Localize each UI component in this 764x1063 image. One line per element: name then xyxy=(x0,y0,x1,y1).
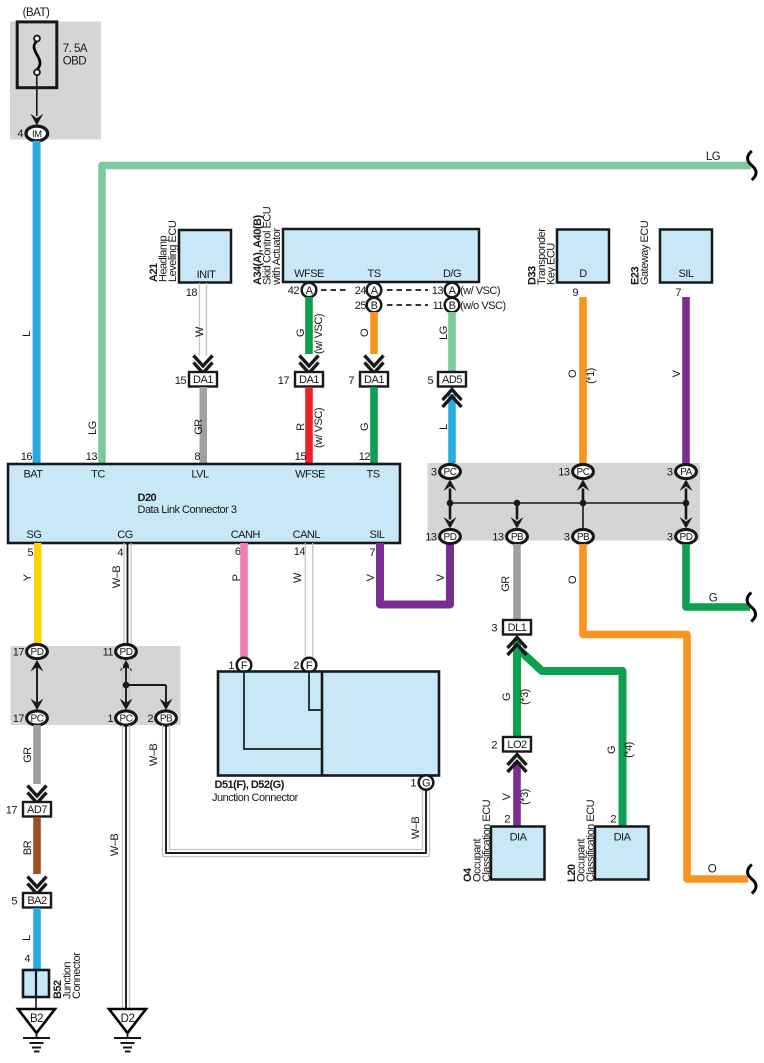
svg-text:P: P xyxy=(231,574,243,581)
connector PD top right xyxy=(116,644,137,658)
svg-text:A: A xyxy=(306,285,314,297)
svg-text:13: 13 xyxy=(86,451,98,463)
pin 3 PA xyxy=(667,467,673,479)
svg-text:Classification ECU: Classification ECU xyxy=(585,799,597,882)
label GR xyxy=(193,419,205,435)
label LG horizontal xyxy=(706,151,721,163)
wire G (green) DA1 to D20 pin 12 TS xyxy=(370,387,378,464)
label W xyxy=(292,572,304,583)
wire L (blue) AD5 to 3 PC xyxy=(448,394,456,464)
connector PB bottom right xyxy=(156,711,177,725)
connector 5 BA2 xyxy=(11,893,51,908)
dashed link TS B to D/G B xyxy=(387,304,428,306)
svg-text:IM: IM xyxy=(32,129,42,140)
svg-text:24: 24 xyxy=(355,285,367,297)
label LG xyxy=(438,326,450,340)
label W-B xyxy=(111,566,123,589)
svg-text:(BAT): (BAT) xyxy=(23,7,50,19)
pin 5 SG xyxy=(27,547,33,559)
label (BAT) xyxy=(23,7,50,19)
svg-text:5: 5 xyxy=(427,375,433,387)
svg-text:PB: PB xyxy=(160,714,173,725)
svg-text:V: V xyxy=(365,573,377,581)
svg-text:13: 13 xyxy=(432,285,444,297)
wire Y (yellow) D20 SG to 17 PD xyxy=(34,543,42,646)
svg-text:G: G xyxy=(422,778,430,790)
pin 11 PD xyxy=(103,647,114,659)
arrow into DA1 TS xyxy=(365,356,384,374)
wire G (green) 3 PD to right edge xyxy=(686,544,750,607)
wire O (orange) 3 PB to right edge xyxy=(583,544,748,879)
wire W (white) D20 CANL to D51 2F xyxy=(305,543,312,659)
pin 7 SIL xyxy=(369,547,375,559)
svg-text:3: 3 xyxy=(491,623,497,635)
label GR xyxy=(500,576,512,592)
svg-text:Data Link Connector 3: Data Link Connector 3 xyxy=(138,504,237,516)
svg-text:(*1): (*1) xyxy=(585,368,597,384)
svg-text:5: 5 xyxy=(27,547,33,559)
label D51 D52 xyxy=(212,779,299,804)
arrow down into 13 PD xyxy=(444,503,457,529)
label P xyxy=(231,574,243,581)
internal wire from 1F xyxy=(244,672,322,749)
svg-text:PD: PD xyxy=(120,647,133,658)
connector IM xyxy=(26,126,48,141)
arrow into DA1 xyxy=(194,356,213,374)
ECU D33 Transponder Key ECU xyxy=(527,228,610,285)
link 11 PD down xyxy=(123,659,130,710)
dashed link TS A to D/G A xyxy=(387,289,428,291)
svg-text:TS: TS xyxy=(367,268,380,280)
svg-text:LVL: LVL xyxy=(191,469,209,481)
svg-text:W–B: W–B xyxy=(410,817,422,840)
svg-text:(*3): (*3) xyxy=(519,689,531,705)
svg-text:17: 17 xyxy=(278,375,290,387)
connector PA top right xyxy=(676,464,697,478)
label G (*4) branch xyxy=(606,742,635,758)
svg-text:INIT: INIT xyxy=(197,269,217,281)
internal bus line xyxy=(450,502,686,504)
pin 13 PD xyxy=(425,532,437,544)
arrow into BA2 xyxy=(28,877,47,895)
svg-text:A: A xyxy=(371,285,379,297)
svg-text:B: B xyxy=(449,300,456,312)
junction dot 3 xyxy=(580,500,587,507)
internal wire from 2F xyxy=(309,672,322,710)
label L xyxy=(21,935,33,941)
continuation squiggle LG xyxy=(748,151,757,180)
svg-text:SIL: SIL xyxy=(369,529,384,541)
connector 7 DA1 xyxy=(348,372,388,387)
pin 1 G xyxy=(410,778,416,790)
label V xyxy=(671,369,683,377)
wire LG (light green) D/G B to AD5 xyxy=(448,312,456,372)
svg-text:B: B xyxy=(371,300,378,312)
wire W-B D20 CG to 11 PD xyxy=(124,543,131,645)
svg-text:V: V xyxy=(671,369,683,377)
svg-text:W: W xyxy=(194,326,206,337)
svg-text:13: 13 xyxy=(425,532,437,544)
svg-text:LG: LG xyxy=(706,151,721,163)
svg-text:2: 2 xyxy=(504,814,510,826)
svg-text:8: 8 xyxy=(194,451,200,463)
svg-text:V: V xyxy=(501,792,513,800)
label W-B xyxy=(109,834,121,857)
connector PC bottom left xyxy=(27,711,48,725)
wire O (orange) TS B to DA1 xyxy=(370,312,378,354)
pin 1 PC xyxy=(107,713,113,725)
svg-text:42: 42 xyxy=(288,285,300,297)
ECU O4 Occupant Classification ECU xyxy=(462,799,545,882)
svg-text:3: 3 xyxy=(667,532,673,544)
svg-text:GR: GR xyxy=(193,419,205,435)
svg-text:12: 12 xyxy=(359,451,371,463)
svg-text:PB: PB xyxy=(511,532,524,543)
svg-text:G: G xyxy=(359,423,371,431)
svg-text:TS: TS xyxy=(366,469,379,481)
wire G (green) WFSE to DA1 xyxy=(305,297,313,354)
pin 24 terminal A of TS xyxy=(355,283,382,298)
svg-text:4: 4 xyxy=(17,128,23,140)
svg-text:(*4): (*4) xyxy=(623,742,635,758)
svg-text:DA1: DA1 xyxy=(364,374,384,386)
pin 25 terminal B of TS xyxy=(355,298,382,313)
dashed link WFSE A to TS A xyxy=(321,289,349,291)
label O xyxy=(359,328,371,337)
arrow down into 17 PC xyxy=(31,699,44,711)
wire R (red) DA1 to D20 pin 15 WFSE xyxy=(305,387,313,464)
terminal F1 xyxy=(237,658,252,673)
svg-text:W–B: W–B xyxy=(148,744,160,767)
svg-text:D20: D20 xyxy=(138,492,157,504)
junction dot 4 xyxy=(683,500,690,507)
pin 42 terminal A of WFSE xyxy=(288,283,317,298)
label O vertical xyxy=(567,575,579,584)
svg-text:17: 17 xyxy=(13,713,25,725)
svg-text:2: 2 xyxy=(610,814,616,826)
arrow into DA1 WFSE xyxy=(300,356,319,374)
svg-text:Key ECU: Key ECU xyxy=(546,243,558,285)
wire BR (brown) AD7 to BA2 xyxy=(33,817,41,874)
connector 15 DA1 xyxy=(175,372,217,387)
svg-text:G: G xyxy=(709,593,718,605)
svg-text:Connector: Connector xyxy=(71,952,83,999)
label BR xyxy=(22,840,34,855)
svg-text:18: 18 xyxy=(186,287,198,299)
svg-text:L: L xyxy=(21,331,33,337)
pin 9 xyxy=(572,287,578,299)
svg-text:PC: PC xyxy=(31,714,44,725)
pin 6 CANH xyxy=(235,546,241,558)
arrow up into 3 PC xyxy=(444,480,457,504)
wire fuse to IM with arrow xyxy=(30,75,43,125)
svg-text:with Actuator: with Actuator xyxy=(271,228,283,286)
pin 17 PD xyxy=(13,647,25,659)
svg-text:16: 16 xyxy=(21,451,33,463)
svg-text:15: 15 xyxy=(175,375,187,387)
label Y xyxy=(22,573,34,581)
svg-text:G: G xyxy=(501,693,513,701)
svg-text:17: 17 xyxy=(13,647,25,659)
svg-text:O: O xyxy=(567,369,579,378)
svg-text:BAT: BAT xyxy=(23,469,43,481)
svg-text:L: L xyxy=(438,424,450,430)
svg-text:(w/ VSC): (w/ VSC) xyxy=(313,408,325,448)
svg-text:W: W xyxy=(292,572,304,583)
svg-text:GR: GR xyxy=(500,576,512,592)
svg-text:11: 11 xyxy=(103,647,114,659)
label G (*3) xyxy=(501,689,531,705)
connector 17 AD7 xyxy=(6,802,51,817)
svg-text:PD: PD xyxy=(31,647,44,658)
svg-text:PC: PC xyxy=(444,467,457,478)
svg-text:AD7: AD7 xyxy=(27,804,47,816)
wire O (orange) D33 D to 13 PC xyxy=(579,297,587,464)
svg-text:A: A xyxy=(449,285,457,297)
label W-B near G xyxy=(410,817,422,840)
ground B2 xyxy=(18,1009,55,1052)
connector 17 DA1 xyxy=(278,372,323,387)
svg-text:BR: BR xyxy=(22,840,34,855)
svg-text:Y: Y xyxy=(22,573,34,581)
label V right xyxy=(435,573,447,581)
label W-B near PB xyxy=(148,744,160,767)
svg-text:CG: CG xyxy=(117,529,133,541)
svg-text:B2: B2 xyxy=(30,1013,43,1025)
connector 2 LO2 xyxy=(491,737,531,752)
link down to 3 PB xyxy=(582,503,584,529)
svg-text:15: 15 xyxy=(295,451,307,463)
pin 3 PB xyxy=(564,532,570,544)
svg-text:(w/o VSC): (w/o VSC) xyxy=(460,300,506,312)
svg-text:DA1: DA1 xyxy=(299,374,319,386)
svg-text:1: 1 xyxy=(107,713,113,725)
svg-text:LO2: LO2 xyxy=(507,739,527,751)
arrow up into 13 PC xyxy=(577,480,590,504)
svg-text:LG: LG xyxy=(87,421,99,435)
pin 7 xyxy=(675,287,681,299)
svg-text:PB: PB xyxy=(577,532,590,543)
svg-text:Gateway ECU: Gateway ECU xyxy=(639,220,651,285)
svg-text:13: 13 xyxy=(558,467,570,479)
pin 13 xyxy=(86,451,98,463)
label V left xyxy=(365,573,377,581)
svg-text:G: G xyxy=(606,746,618,754)
svg-text:(w/ VSC): (w/ VSC) xyxy=(313,314,325,354)
wire L (blue) BA2 to B52 xyxy=(33,908,41,970)
pin 4 B52 xyxy=(24,953,30,965)
svg-text:R: R xyxy=(295,423,307,431)
svg-text:L: L xyxy=(21,935,33,941)
svg-text:AD5: AD5 xyxy=(442,374,462,386)
svg-text:17: 17 xyxy=(6,805,18,817)
svg-text:7: 7 xyxy=(675,287,681,299)
label V (*3) xyxy=(501,789,531,805)
svg-text:9: 9 xyxy=(572,287,578,299)
svg-text:2: 2 xyxy=(491,740,497,752)
terminal F2 xyxy=(302,658,317,673)
arrow up from LO2 xyxy=(508,755,527,773)
label R w/ VSC xyxy=(295,408,325,448)
svg-text:O: O xyxy=(708,864,717,876)
svg-text:V: V xyxy=(435,573,447,581)
wire W-B 2 PB to D51 1 G xyxy=(163,725,430,857)
label G horizontal xyxy=(709,593,718,605)
connector 3 DL1 xyxy=(491,620,531,635)
connector PC bottom middle xyxy=(116,711,137,725)
svg-text:14: 14 xyxy=(294,546,306,558)
wire LG D20 pin 13 TC to right edge xyxy=(102,166,751,465)
svg-text:11: 11 xyxy=(433,300,444,312)
svg-text:DIA: DIA xyxy=(614,832,632,844)
pin 8 xyxy=(194,451,200,463)
arrow up into 11 PD xyxy=(120,660,133,672)
svg-text:LG: LG xyxy=(438,326,450,340)
svg-text:PC: PC xyxy=(577,467,590,478)
branch to 2 PB xyxy=(126,685,166,704)
fuse block shading xyxy=(10,22,101,140)
pin 2 O4 DIA xyxy=(504,814,510,826)
svg-text:O: O xyxy=(567,575,579,584)
wire P (pink) D20 CANH to D51 1F xyxy=(240,543,248,659)
svg-text:OBD: OBD xyxy=(63,56,87,68)
junction dot 2 xyxy=(514,500,521,507)
junction box shading left xyxy=(11,646,181,725)
arrow down into 1 PC xyxy=(120,699,133,711)
arrow up into 3 PA xyxy=(680,480,693,504)
label GR xyxy=(22,747,34,763)
svg-text:13: 13 xyxy=(492,532,504,544)
junction dot left box xyxy=(123,682,130,689)
svg-text:DA1: DA1 xyxy=(193,374,213,386)
pin 2 PB xyxy=(147,713,153,725)
svg-text:3: 3 xyxy=(667,467,673,479)
pin 14 CANL xyxy=(294,546,306,558)
connector 5 AD5 xyxy=(427,372,466,387)
wire GR (gray) DA1 to D20 pin 8 LVL xyxy=(200,387,208,464)
connector PD bottom left xyxy=(440,529,461,543)
wire V (violet) E23 SIL to 3 PA xyxy=(682,297,690,464)
connector block D20 Data Link Connector 3 xyxy=(8,464,400,543)
svg-text:(*3): (*3) xyxy=(519,789,531,805)
terminal G xyxy=(419,775,434,790)
svg-text:4: 4 xyxy=(24,953,30,965)
svg-text:PD: PD xyxy=(680,532,693,543)
label L xyxy=(21,331,33,337)
arrow up into 17 PD xyxy=(31,660,44,672)
svg-text:DL1: DL1 xyxy=(508,622,527,634)
link 17 PD to 17 PC xyxy=(36,667,38,704)
svg-text:D51(F), D52(G): D51(F), D52(G) xyxy=(215,779,285,791)
label L xyxy=(438,424,450,430)
svg-text:PC: PC xyxy=(120,714,133,725)
wire GR (gray) 13 PB to DL1 xyxy=(513,544,521,620)
junction dot 1 xyxy=(447,500,454,507)
pin 4 xyxy=(17,128,23,140)
connector PB bottom 2 xyxy=(573,529,594,543)
ECU E23 Gateway ECU xyxy=(630,220,713,285)
wire W (white) A21 INIT to DA1 xyxy=(200,283,207,356)
svg-text:SIL: SIL xyxy=(678,268,693,280)
connector PD bottom right xyxy=(676,529,697,543)
pin 13 PB xyxy=(492,532,504,544)
pin 17 PC xyxy=(13,713,25,725)
pin 13 terminal A of D/G (w/ VSC) xyxy=(432,283,500,298)
svg-text:WFSE: WFSE xyxy=(294,268,324,280)
svg-text:5: 5 xyxy=(11,896,17,908)
svg-text:W–B: W–B xyxy=(111,566,123,589)
svg-text:PA: PA xyxy=(680,467,692,478)
svg-text:SG: SG xyxy=(27,529,42,541)
svg-text:4: 4 xyxy=(117,547,123,559)
label G w/ VSC xyxy=(295,314,325,354)
pin 1 F xyxy=(228,660,234,672)
svg-text:6: 6 xyxy=(235,546,241,558)
ECU A21 Headlamp Leveling ECU xyxy=(148,220,231,282)
pin 12 xyxy=(359,451,371,463)
pin 2 F xyxy=(293,660,299,672)
pin 3 PC xyxy=(431,467,437,479)
svg-text:7: 7 xyxy=(369,547,375,559)
connector PD top left xyxy=(27,644,48,658)
svg-text:3: 3 xyxy=(431,467,437,479)
arrow down into 13 PB xyxy=(511,503,524,529)
svg-text:1: 1 xyxy=(410,778,416,790)
arrow up from DL1 xyxy=(508,638,527,656)
junction connector B52 xyxy=(23,952,83,999)
svg-text:7: 7 xyxy=(348,375,354,387)
wire V (violet) D20 SIL to 13 PD xyxy=(380,543,450,605)
ground D2 xyxy=(109,1009,146,1052)
wire GR (gray) 17 PC to AD7 xyxy=(33,725,41,784)
svg-text:CANL: CANL xyxy=(293,529,321,541)
svg-text:Classification ECU: Classification ECU xyxy=(481,799,493,882)
pin 15 xyxy=(295,451,307,463)
fuse 7. 5A OBD xyxy=(17,22,88,88)
svg-text:GR: GR xyxy=(22,747,34,763)
svg-text:DIA: DIA xyxy=(510,832,528,844)
arrow into AD7 xyxy=(28,786,47,804)
pin 3 PD xyxy=(667,532,673,544)
pin 2 L20 DIA xyxy=(610,814,616,826)
pin 18 xyxy=(186,287,198,299)
ECU A34(A) A40(B) Skid Control ECU with Actuator xyxy=(252,206,479,286)
label W xyxy=(194,326,206,337)
arrow up from AD5 xyxy=(443,390,462,408)
svg-text:W–B: W–B xyxy=(109,834,121,857)
svg-text:TC: TC xyxy=(91,469,105,481)
svg-text:(w/ VSC): (w/ VSC) xyxy=(460,285,500,297)
label G xyxy=(359,423,371,431)
continuation squiggle G xyxy=(747,593,756,622)
junction box shading right xyxy=(428,463,701,541)
pin 13 PC xyxy=(558,467,570,479)
svg-text:D/G: D/G xyxy=(443,268,461,280)
svg-text:CANH: CANH xyxy=(231,529,261,541)
svg-text:D2: D2 xyxy=(121,1013,135,1025)
svg-text:BA2: BA2 xyxy=(27,895,47,907)
continuation squiggle O xyxy=(748,865,757,894)
svg-text:G: G xyxy=(295,329,307,337)
svg-text:3: 3 xyxy=(564,532,570,544)
wire W-B 1 PC to ground D2 xyxy=(123,725,130,1009)
svg-text:Junction Connector: Junction Connector xyxy=(212,792,299,804)
svg-text:D: D xyxy=(579,268,587,280)
connector PC top middle xyxy=(573,464,594,478)
pin 16 xyxy=(21,451,33,463)
svg-text:7. 5A: 7. 5A xyxy=(63,43,88,55)
wire V (violet) LO2 to O4 DIA xyxy=(513,762,521,827)
